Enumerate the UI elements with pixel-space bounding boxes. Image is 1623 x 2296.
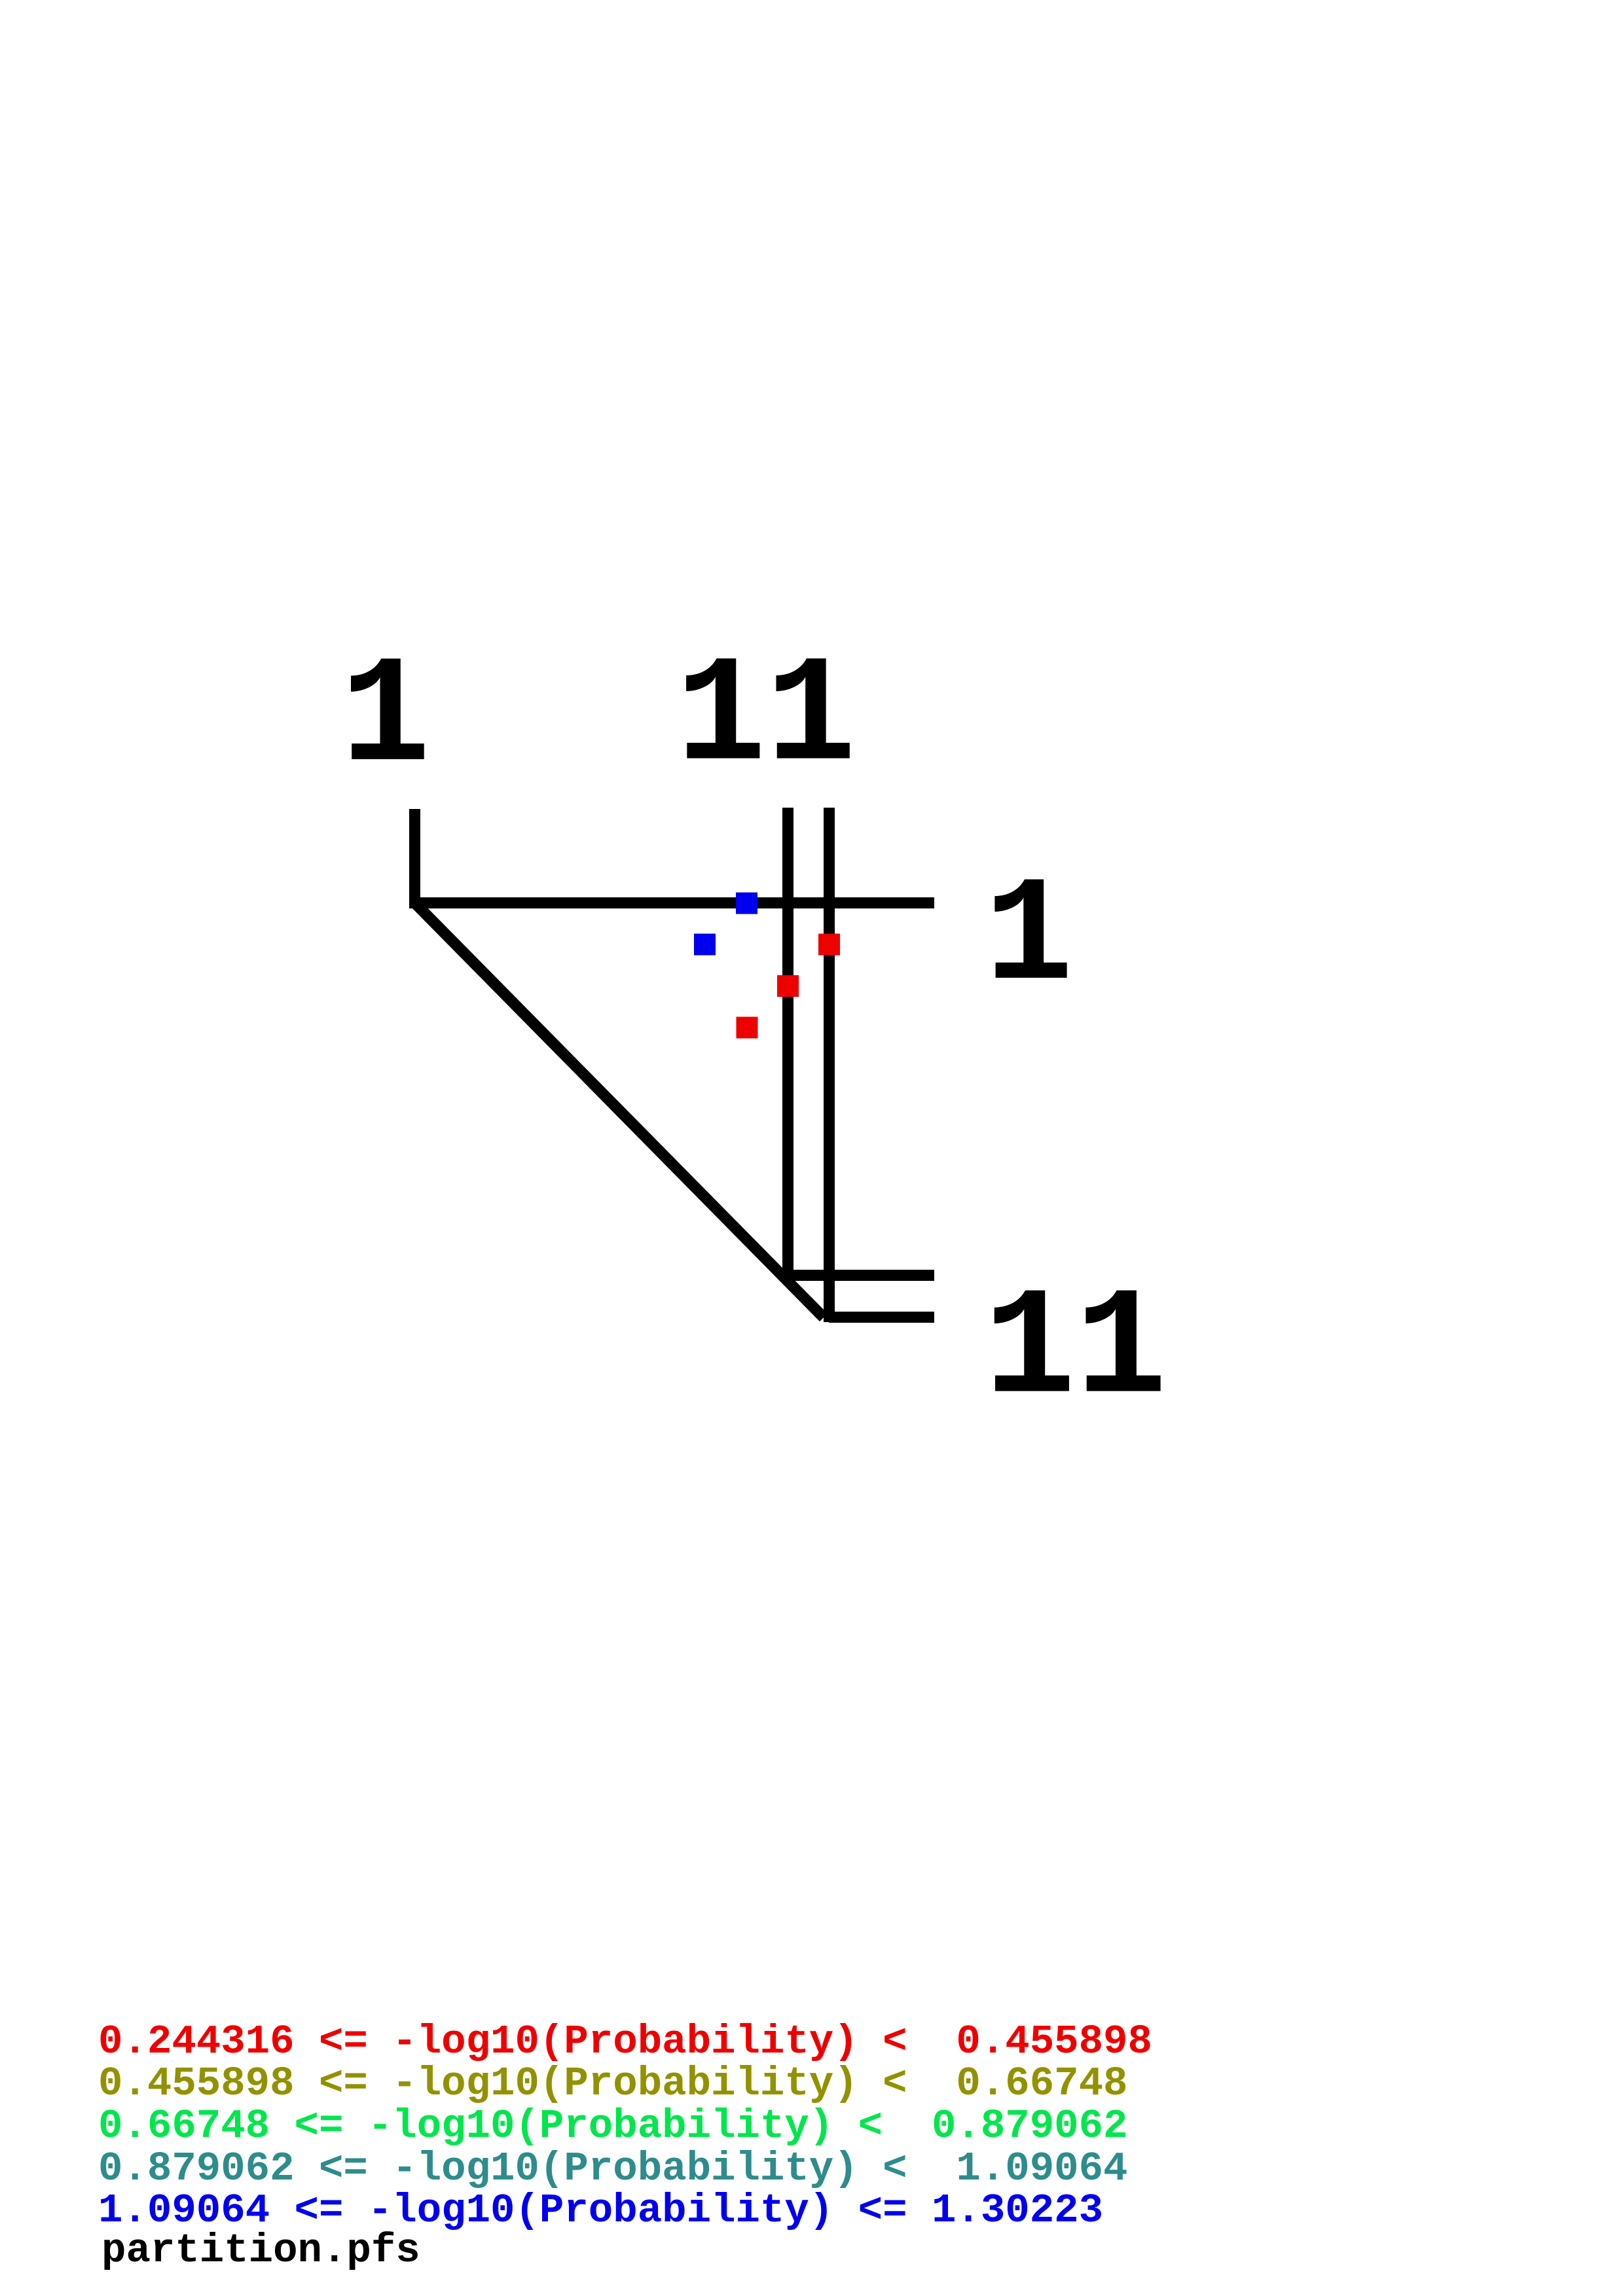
svg-text:partition.pfs: partition.pfs: [101, 2227, 420, 2274]
svg-text:11: 11: [676, 632, 856, 804]
dot: blue pair (8,2): [694, 934, 716, 956]
grid line: row 1 (horizontal, top of triangle): [409, 897, 934, 908]
grid line: row 10 (horizontal): [783, 1270, 934, 1281]
svg-text:0.455898 <= -log10(Probability: 0.455898 <= -log10(Probability) < 0.6674…: [98, 2060, 1128, 2107]
dot: red pair (10,3): [777, 975, 799, 997]
dot: blue pair (9,1): [736, 893, 757, 914]
tick line: column 11 (vertical): [824, 808, 835, 1322]
diagonal of dot-plot triangle: [415, 903, 824, 1318]
tick line: column 10 (vertical): [782, 808, 793, 1280]
svg-text:0.244316 <= -log10(Probability: 0.244316 <= -log10(Probability) < 0.4558…: [98, 2018, 1152, 2065]
axis label "1" (top left, column 1): [341, 633, 431, 806]
axis label "1" (right, row 1): [985, 853, 1073, 1023]
tick line: column 1 (vertical): [409, 809, 420, 908]
svg-text:1: 1: [985, 853, 1073, 1023]
grid line: row 11 (horizontal): [829, 1312, 934, 1323]
axis label "11" (bottom right, row 11): [984, 1265, 1167, 1437]
axis label "11" (top, columns 10-11): [676, 632, 856, 804]
svg-text:0.66748 <= -log10(Probability): 0.66748 <= -log10(Probability) < 0.87906…: [98, 2103, 1128, 2149]
dot: red pair (9,4): [737, 1017, 758, 1039]
svg-text:1: 1: [341, 633, 431, 806]
svg-text:11: 11: [984, 1265, 1167, 1437]
dot: red pair (11,2): [818, 934, 840, 956]
svg-text:0.879062 <= -log10(Probability: 0.879062 <= -log10(Probability) < 1.0906…: [98, 2145, 1128, 2192]
